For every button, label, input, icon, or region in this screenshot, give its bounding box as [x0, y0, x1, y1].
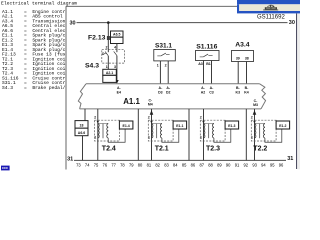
svg-text:96: 96	[279, 162, 284, 167]
svg-text:D3: D3	[158, 90, 163, 94]
svg-text:89: 89	[217, 162, 222, 167]
svg-text:74: 74	[85, 162, 90, 167]
svg-text:95: 95	[270, 162, 275, 167]
svg-text:A2.1: A2.1	[106, 71, 113, 75]
svg-text:85: 85	[182, 162, 187, 167]
svg-text:D2: D2	[166, 90, 171, 94]
svg-text:C3: C3	[209, 90, 214, 94]
svg-text:18: 18	[80, 123, 84, 127]
svg-text:1: 1	[106, 65, 108, 69]
svg-text:A6.5: A6.5	[113, 33, 120, 37]
svg-text:77: 77	[111, 162, 116, 167]
svg-text:39: 39	[236, 57, 240, 61]
svg-text:A2: A2	[201, 90, 206, 94]
svg-text:30: 30	[289, 20, 295, 26]
svg-text:86: 86	[191, 162, 196, 167]
svg-text:S31.1: S31.1	[155, 43, 172, 50]
svg-text:2: 2	[165, 64, 167, 68]
svg-text:75: 75	[94, 162, 99, 167]
svg-text:31: 31	[287, 156, 293, 162]
svg-text:1: 1	[157, 64, 159, 68]
svg-text:K4: K4	[244, 90, 249, 94]
svg-text:S4.3: S4.3	[85, 62, 99, 69]
svg-text:76: 76	[103, 162, 108, 167]
svg-text:83: 83	[164, 162, 169, 167]
svg-text:78: 78	[120, 162, 125, 167]
svg-text:GS111692: GS111692	[257, 14, 285, 20]
svg-text:90: 90	[226, 162, 231, 167]
svg-text:30: 30	[69, 20, 75, 26]
svg-text:E1.4: E1.4	[122, 124, 129, 128]
svg-text:38: 38	[245, 57, 249, 61]
svg-text:A6.6: A6.6	[78, 131, 85, 135]
svg-text:A3.4: A3.4	[235, 42, 250, 49]
svg-text:93: 93	[252, 162, 257, 167]
svg-text:87: 87	[199, 162, 204, 167]
svg-text:T2.1: T2.1	[155, 146, 169, 153]
svg-text:A3: A3	[198, 62, 203, 66]
svg-text:91: 91	[235, 162, 240, 167]
svg-text:3: 3	[114, 65, 116, 69]
svg-text:Electrical terminal diagram: Electrical terminal diagram	[1, 0, 77, 6]
svg-text:E1.3: E1.3	[228, 124, 235, 128]
svg-text:T2.4: T2.4	[102, 146, 116, 153]
svg-text:81: 81	[147, 162, 152, 167]
svg-text:73: 73	[76, 162, 81, 167]
svg-text:94: 94	[261, 162, 266, 167]
svg-text:F2.13: F2.13	[88, 35, 106, 42]
svg-text:S1.116: S1.116	[196, 43, 217, 50]
svg-text:88: 88	[208, 162, 213, 167]
svg-text:2: 2	[106, 45, 108, 49]
svg-text:T2.2: T2.2	[253, 146, 267, 153]
svg-text:82: 82	[155, 162, 160, 167]
svg-text:4: 4	[114, 45, 116, 49]
svg-text:T2.3: T2.3	[206, 146, 220, 153]
svg-text:K3: K3	[236, 90, 241, 94]
svg-text:M4: M4	[148, 103, 153, 107]
svg-text:A1.1: A1.1	[123, 97, 140, 106]
svg-text:92: 92	[244, 162, 249, 167]
svg-text:E1.1: E1.1	[176, 124, 183, 128]
svg-text:2: 2	[251, 115, 253, 119]
svg-text:B1: B1	[206, 62, 211, 66]
svg-text:2: 2	[148, 115, 150, 119]
svg-text:80: 80	[138, 162, 143, 167]
svg-text:84: 84	[173, 162, 178, 167]
svg-text:E4: E4	[117, 90, 121, 94]
svg-text:2: 2	[94, 115, 96, 119]
svg-text:2: 2	[200, 115, 202, 119]
svg-text:79: 79	[129, 162, 134, 167]
svg-text:31: 31	[67, 156, 73, 162]
svg-text:E1.2: E1.2	[279, 124, 286, 128]
svg-text:M3: M3	[253, 103, 258, 107]
